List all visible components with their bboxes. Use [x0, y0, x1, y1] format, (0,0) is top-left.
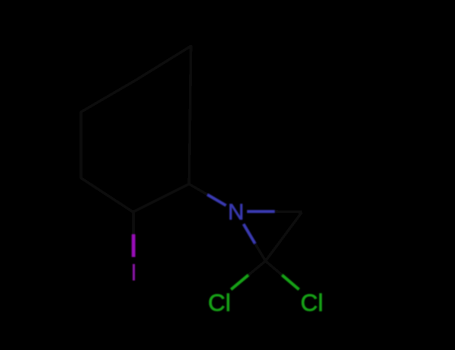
bond ring C2 to I (carbon half) [132, 212, 135, 235]
svg-text:Cl: Cl [208, 290, 231, 317]
svg-text:I: I [130, 260, 137, 287]
bond N to aziridine C3 (nitrogen half) [247, 210, 275, 213]
bond ring C1 to N (carbon half) [189, 184, 208, 195]
bond C2 to left Cl (carbon half) [248, 261, 265, 275]
bond N to aziridine C2 (nitrogen half) [244, 224, 256, 244]
bond aziridine C2 to C3 [266, 212, 303, 261]
bond C2 to right Cl (carbon half) [266, 261, 283, 275]
cycloheptane ring carbon skeleton [81, 46, 191, 212]
bond ring C2 to I (iodine half) [132, 235, 136, 258]
bond C2 to left Cl (chlorine half) [231, 275, 248, 289]
bond N to aziridine C3 (carbon half) [275, 210, 303, 214]
bond ring C1 to N (nitrogen half) [208, 195, 227, 206]
svg-text:Cl: Cl [301, 290, 324, 317]
bond N to aziridine C2 (carbon half) [255, 244, 266, 262]
svg-text:N: N [228, 200, 244, 225]
bond C2 to right Cl (chlorine half) [282, 275, 299, 289]
